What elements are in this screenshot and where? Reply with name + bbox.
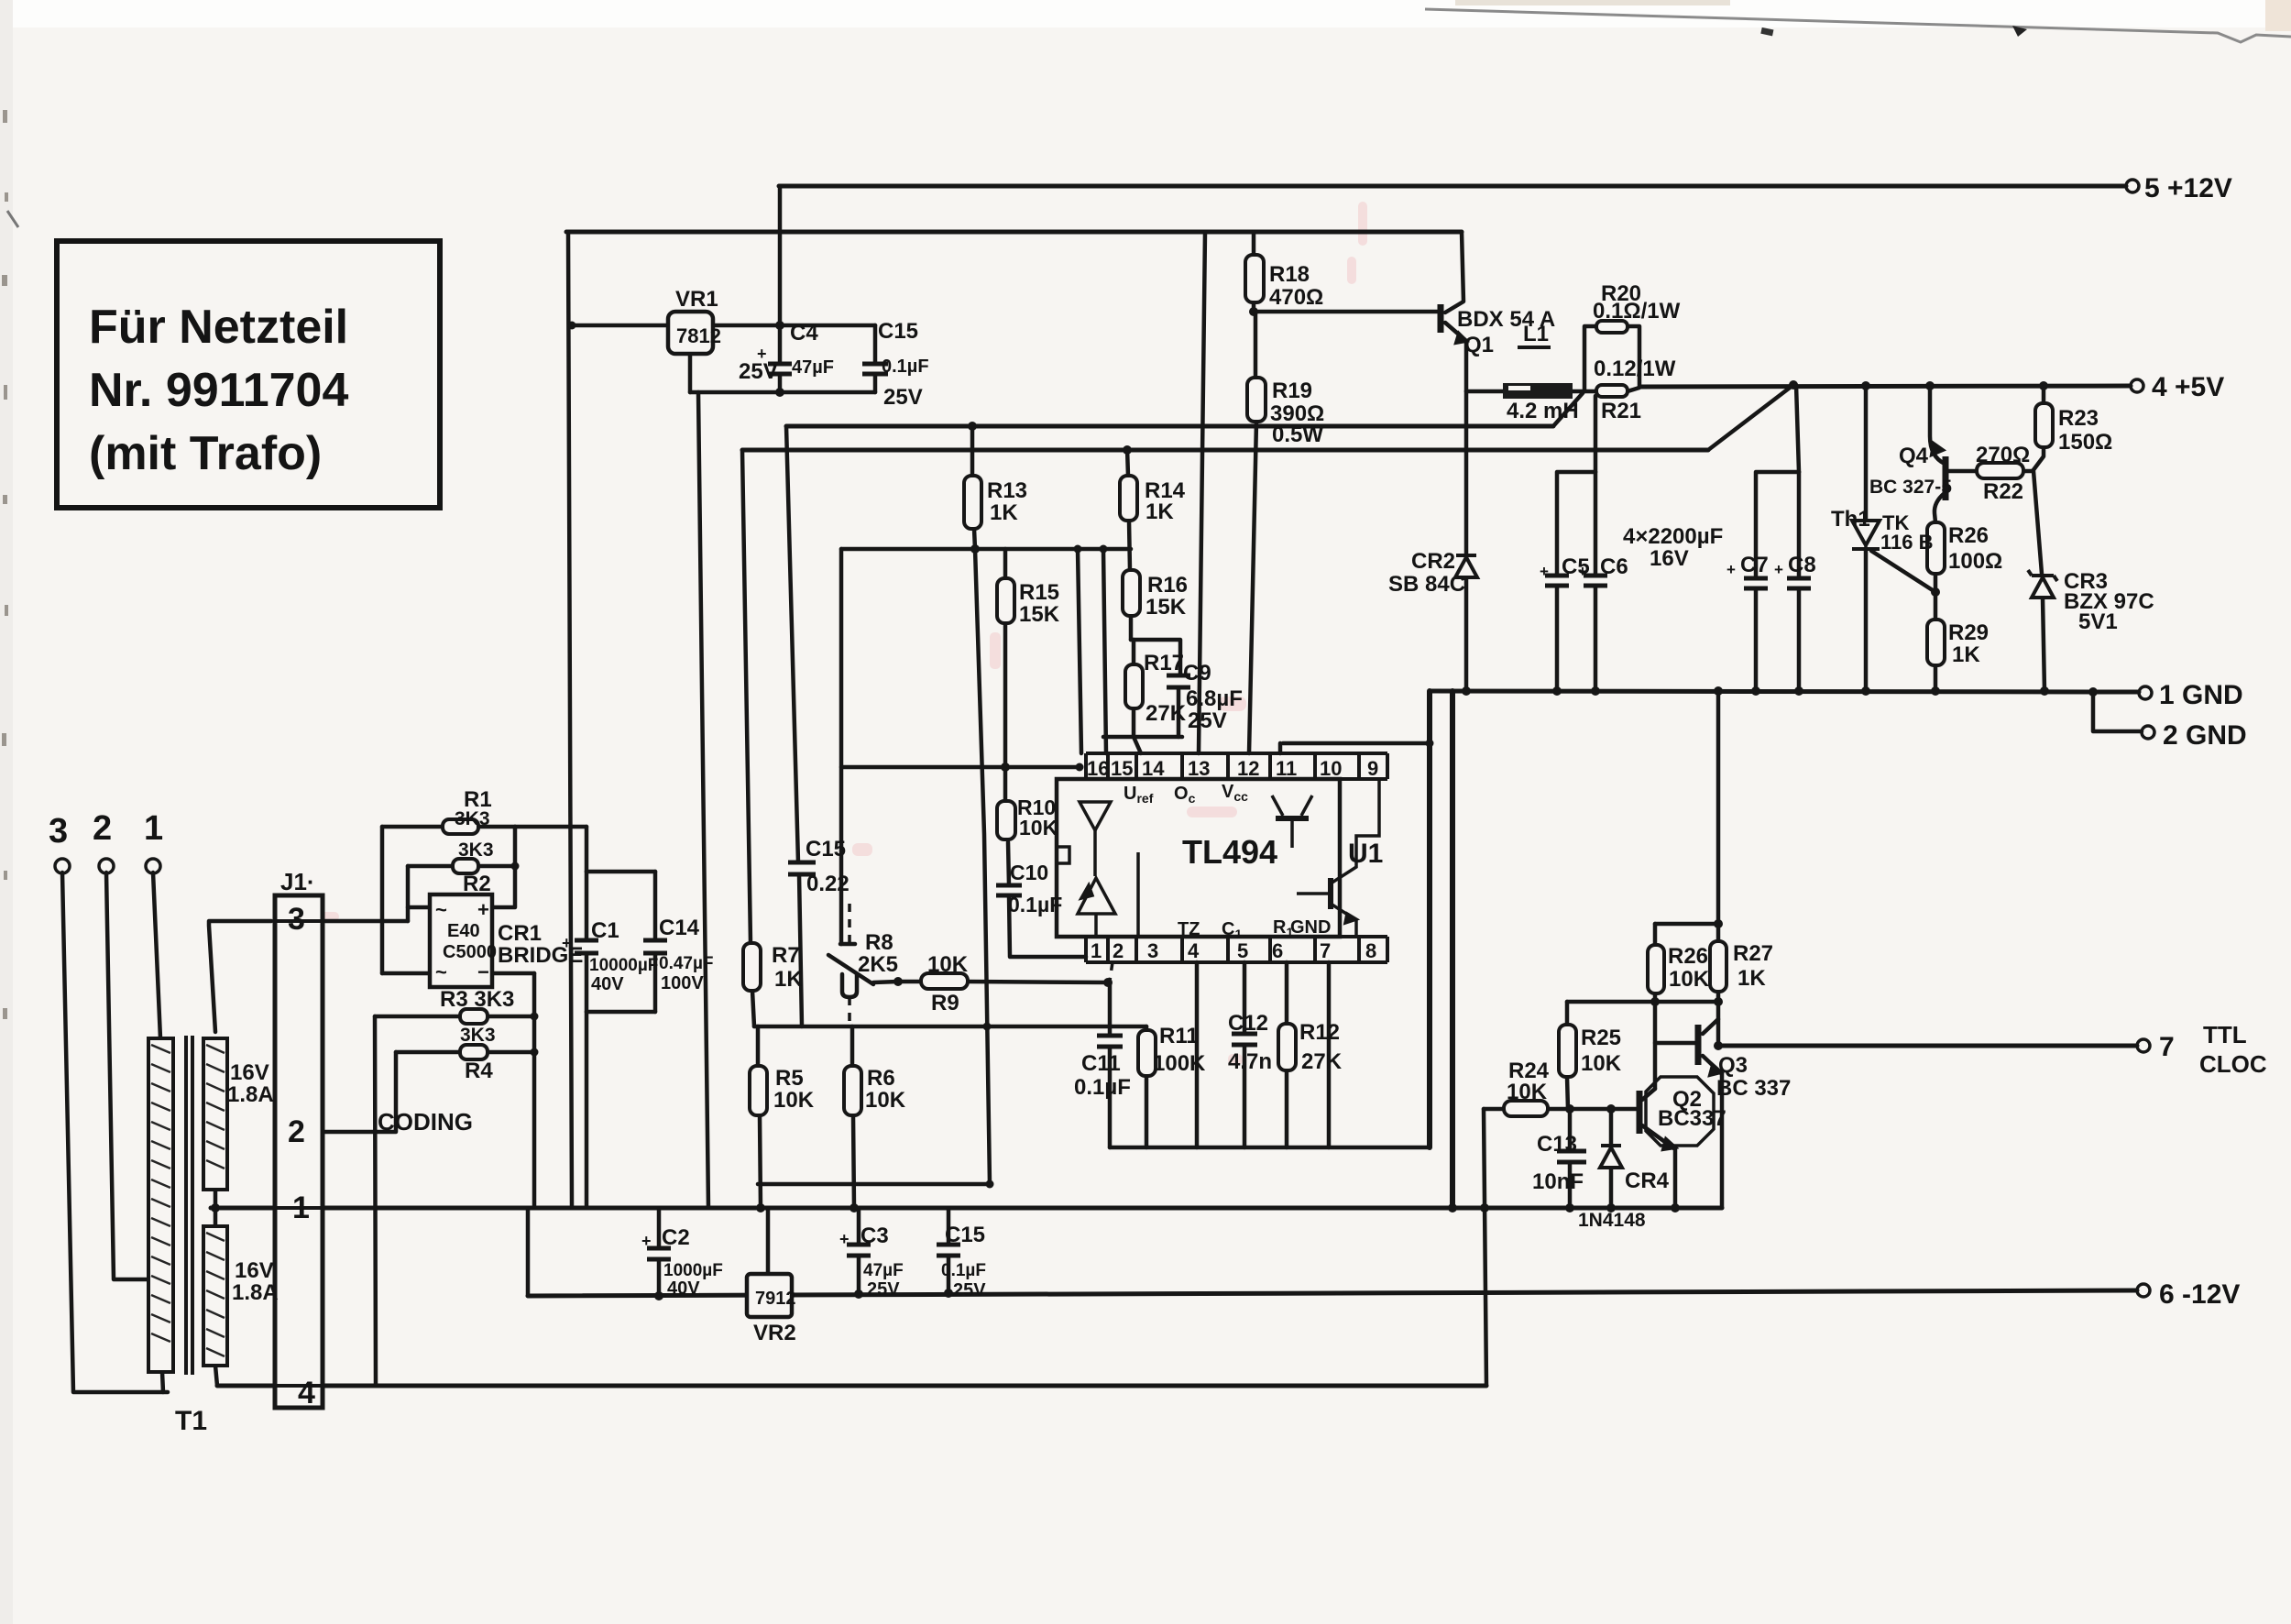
svg-text:0.22: 0.22 — [806, 872, 850, 896]
svg-text:0.1µF: 0.1µF — [1074, 1075, 1131, 1100]
svg-text:6 -12V: 6 -12V — [2159, 1279, 2240, 1310]
svg-text:4 +5V: 4 +5V — [2152, 372, 2224, 402]
svg-text:12: 12 — [1237, 757, 1259, 780]
svg-text:5 +12V: 5 +12V — [2144, 173, 2232, 203]
svg-text:16V: 16V — [1650, 546, 1689, 571]
svg-text:2: 2 — [1113, 939, 1124, 962]
svg-text:1K: 1K — [1952, 642, 1980, 667]
svg-text:3: 3 — [288, 902, 305, 937]
svg-text:R23: R23 — [2058, 406, 2099, 431]
svg-text:C4: C4 — [790, 321, 818, 346]
svg-text:100K: 100K — [1153, 1051, 1206, 1076]
svg-text:BC 337: BC 337 — [1716, 1076, 1791, 1101]
svg-text:R19: R19 — [1272, 379, 1312, 403]
svg-text:R4: R4 — [465, 1059, 493, 1083]
svg-text:+: + — [477, 898, 489, 921]
svg-text:R13: R13 — [987, 478, 1027, 503]
svg-text:9: 9 — [1367, 757, 1378, 780]
svg-text:27K: 27K — [1145, 701, 1187, 726]
svg-text:R25: R25 — [1581, 1026, 1621, 1050]
svg-text:C12: C12 — [1228, 1011, 1268, 1036]
svg-text:150Ω: 150Ω — [2058, 430, 2112, 455]
svg-text:TL494: TL494 — [1182, 833, 1277, 871]
svg-text:0.47µF: 0.47µF — [659, 954, 714, 973]
svg-text:4×2200µF: 4×2200µF — [1623, 524, 1723, 549]
svg-text:C5000: C5000 — [443, 942, 497, 962]
svg-text:+: + — [1540, 563, 1549, 580]
svg-text:Th1: Th1 — [1831, 507, 1870, 532]
svg-text:R12: R12 — [1299, 1020, 1340, 1045]
svg-text:10K: 10K — [773, 1088, 815, 1113]
svg-text:GND: GND — [1290, 917, 1331, 938]
svg-text:BC337: BC337 — [1658, 1106, 1726, 1131]
svg-text:2 GND: 2 GND — [2163, 720, 2247, 751]
svg-text:2K5: 2K5 — [858, 952, 898, 977]
svg-text:C10: C10 — [1010, 861, 1048, 884]
svg-text:16V: 16V — [230, 1060, 269, 1085]
svg-text:6.8µF: 6.8µF — [1186, 686, 1243, 711]
svg-text:1K: 1K — [1737, 966, 1766, 991]
svg-text:11: 11 — [1276, 757, 1297, 780]
svg-text:R17: R17 — [1144, 651, 1184, 675]
svg-text:CODING: CODING — [378, 1108, 473, 1136]
svg-text:C1: C1 — [591, 918, 619, 943]
svg-text:7: 7 — [1320, 939, 1331, 962]
svg-text:10K: 10K — [1507, 1080, 1548, 1104]
svg-text:14: 14 — [1142, 757, 1165, 780]
svg-text:R18: R18 — [1269, 262, 1310, 287]
svg-text:Nr. 9911704: Nr. 9911704 — [89, 364, 348, 417]
svg-text:J1·: J1· — [280, 868, 315, 895]
svg-text:R6: R6 — [867, 1066, 895, 1091]
svg-text:CR1: CR1 — [498, 921, 542, 946]
svg-text:C3: C3 — [860, 1223, 889, 1248]
svg-text:16V: 16V — [235, 1258, 274, 1283]
svg-text:5: 5 — [1237, 939, 1248, 962]
svg-text:10: 10 — [1320, 757, 1342, 780]
svg-text:C14: C14 — [659, 916, 700, 940]
svg-text:1000µF: 1000µF — [663, 1261, 723, 1280]
svg-text:Q1: Q1 — [1464, 333, 1494, 357]
svg-text:4.2 mH: 4.2 mH — [1507, 399, 1579, 423]
svg-text:4: 4 — [1188, 939, 1200, 962]
svg-text:1K: 1K — [1145, 499, 1174, 524]
svg-text:0.1µF: 0.1µF — [941, 1261, 986, 1280]
svg-text:~: ~ — [435, 960, 447, 983]
svg-text:10K: 10K — [865, 1088, 906, 1113]
svg-text:R29: R29 — [1948, 620, 1989, 645]
svg-text:116 B: 116 B — [1880, 531, 1934, 554]
svg-text:13: 13 — [1188, 757, 1210, 780]
svg-text:BC 327-5: BC 327-5 — [1869, 477, 1952, 498]
svg-text:C15: C15 — [806, 837, 846, 861]
svg-text:2: 2 — [288, 1114, 305, 1149]
svg-text:40V: 40V — [591, 974, 624, 994]
svg-text:1K: 1K — [990, 500, 1018, 525]
svg-text:6: 6 — [1272, 939, 1283, 962]
svg-text:10K: 10K — [927, 952, 969, 977]
svg-text:+: + — [1578, 563, 1587, 580]
svg-text:C15: C15 — [945, 1223, 985, 1247]
svg-text:16: 16 — [1087, 757, 1109, 780]
svg-text:+: + — [839, 1230, 850, 1248]
svg-text:0.1µF: 0.1µF — [882, 357, 929, 377]
svg-text:R21: R21 — [1601, 399, 1641, 423]
svg-text:C11: C11 — [1081, 1051, 1121, 1076]
svg-text:CR2: CR2 — [1411, 549, 1455, 574]
svg-text:+: + — [641, 1232, 652, 1250]
svg-text:0.1µF: 0.1µF — [1008, 893, 1062, 916]
svg-text:SB 84C: SB 84C — [1388, 572, 1465, 597]
svg-text:C9: C9 — [1183, 661, 1211, 686]
svg-text:10000µF: 10000µF — [589, 956, 658, 975]
svg-text:R5: R5 — [775, 1066, 804, 1091]
svg-text:3: 3 — [49, 812, 68, 850]
svg-text:T1: T1 — [175, 1406, 207, 1436]
svg-text:3K3: 3K3 — [458, 839, 494, 861]
svg-text:27K: 27K — [1301, 1049, 1343, 1074]
svg-text:25V: 25V — [953, 1280, 986, 1300]
svg-text:C2: C2 — [662, 1225, 690, 1250]
svg-text:C7: C7 — [1740, 553, 1769, 577]
svg-text:R11: R11 — [1159, 1024, 1199, 1048]
svg-text:10K: 10K — [1581, 1051, 1622, 1076]
svg-text:R27: R27 — [1733, 941, 1773, 966]
svg-text:R2: R2 — [463, 872, 491, 896]
svg-text:Q3: Q3 — [1718, 1053, 1748, 1078]
svg-text:5V1: 5V1 — [2078, 609, 2118, 634]
svg-text:C6: C6 — [1600, 554, 1628, 579]
svg-text:R8: R8 — [865, 930, 893, 955]
svg-text:1N4148: 1N4148 — [1578, 1210, 1646, 1231]
svg-text:E40: E40 — [447, 921, 480, 941]
svg-text:3K3: 3K3 — [455, 808, 490, 829]
svg-text:0.5W: 0.5W — [1272, 422, 1323, 447]
svg-text:BRIDGE: BRIDGE — [498, 943, 583, 968]
svg-text:4.7n: 4.7n — [1228, 1049, 1272, 1074]
svg-text:15K: 15K — [1019, 602, 1060, 627]
svg-text:4: 4 — [298, 1376, 315, 1410]
svg-text:3: 3 — [1147, 939, 1158, 962]
svg-text:R16: R16 — [1147, 573, 1188, 598]
svg-text:15K: 15K — [1145, 595, 1187, 620]
svg-text:1K: 1K — [774, 967, 803, 992]
svg-text:1: 1 — [292, 1191, 310, 1225]
svg-text:C13: C13 — [1537, 1132, 1577, 1157]
svg-text:7912: 7912 — [755, 1289, 796, 1309]
svg-text:+: + — [1774, 561, 1783, 578]
svg-text:47µF: 47µF — [792, 357, 834, 378]
svg-text:1: 1 — [1091, 939, 1102, 962]
svg-text:R9: R9 — [931, 991, 959, 1015]
svg-text:15: 15 — [1111, 757, 1133, 780]
svg-text:~: ~ — [435, 898, 447, 921]
svg-text:R26: R26 — [1668, 944, 1708, 969]
svg-text:25V: 25V — [867, 1279, 900, 1300]
svg-text:40V: 40V — [667, 1278, 700, 1299]
svg-text:+: + — [1726, 561, 1736, 578]
svg-text:25V: 25V — [883, 385, 923, 410]
svg-text:VR2: VR2 — [753, 1321, 796, 1345]
svg-text:+: + — [757, 345, 767, 363]
svg-text:R7: R7 — [772, 943, 800, 968]
svg-text:2: 2 — [93, 809, 112, 848]
svg-text:470Ω: 470Ω — [1269, 285, 1323, 310]
svg-text:47µF: 47µF — [863, 1261, 904, 1280]
svg-text:1 GND: 1 GND — [2159, 680, 2243, 710]
svg-text:10K: 10K — [1669, 967, 1710, 992]
svg-text:R3 3K3: R3 3K3 — [440, 987, 514, 1012]
svg-text:25V: 25V — [1188, 708, 1227, 733]
svg-text:7812: 7812 — [676, 324, 721, 347]
svg-text:CR4: CR4 — [1625, 1169, 1670, 1193]
svg-text:C15: C15 — [878, 319, 918, 344]
svg-text:TTL: TTL — [2203, 1021, 2247, 1048]
svg-text:C8: C8 — [1788, 553, 1816, 577]
svg-text:1.8A: 1.8A — [232, 1280, 279, 1305]
svg-text:Q4: Q4 — [1899, 444, 1929, 468]
svg-text:CLOC: CLOC — [2199, 1050, 2267, 1078]
svg-text:100V: 100V — [661, 973, 704, 993]
svg-text:3K3: 3K3 — [460, 1025, 496, 1046]
svg-text:25V: 25V — [739, 359, 778, 384]
svg-text:100Ω: 100Ω — [1948, 549, 2002, 574]
svg-text:8: 8 — [1365, 939, 1376, 962]
svg-text:10nF: 10nF — [1532, 1169, 1584, 1194]
svg-text:10K: 10K — [1019, 816, 1058, 839]
svg-text:R22: R22 — [1983, 479, 2023, 504]
svg-text:1: 1 — [144, 809, 163, 848]
svg-text:R15: R15 — [1019, 580, 1059, 605]
svg-text:270Ω: 270Ω — [1976, 443, 2030, 467]
svg-text:1.8A: 1.8A — [227, 1082, 274, 1107]
svg-text:7: 7 — [2159, 1032, 2175, 1062]
svg-text:L1: L1 — [1523, 322, 1549, 346]
svg-text:0.1Ω/1W: 0.1Ω/1W — [1593, 299, 1681, 324]
svg-text:TZ: TZ — [1178, 919, 1200, 939]
svg-text:0.12/1W: 0.12/1W — [1594, 357, 1676, 381]
svg-text:U1: U1 — [1348, 839, 1383, 869]
svg-text:Für Netzteil: Für Netzteil — [89, 301, 348, 354]
svg-text:R26: R26 — [1948, 523, 1989, 548]
svg-text:VR1: VR1 — [675, 287, 718, 312]
svg-text:−: − — [477, 960, 489, 983]
svg-text:(mit Trafo): (mit Trafo) — [89, 427, 322, 480]
